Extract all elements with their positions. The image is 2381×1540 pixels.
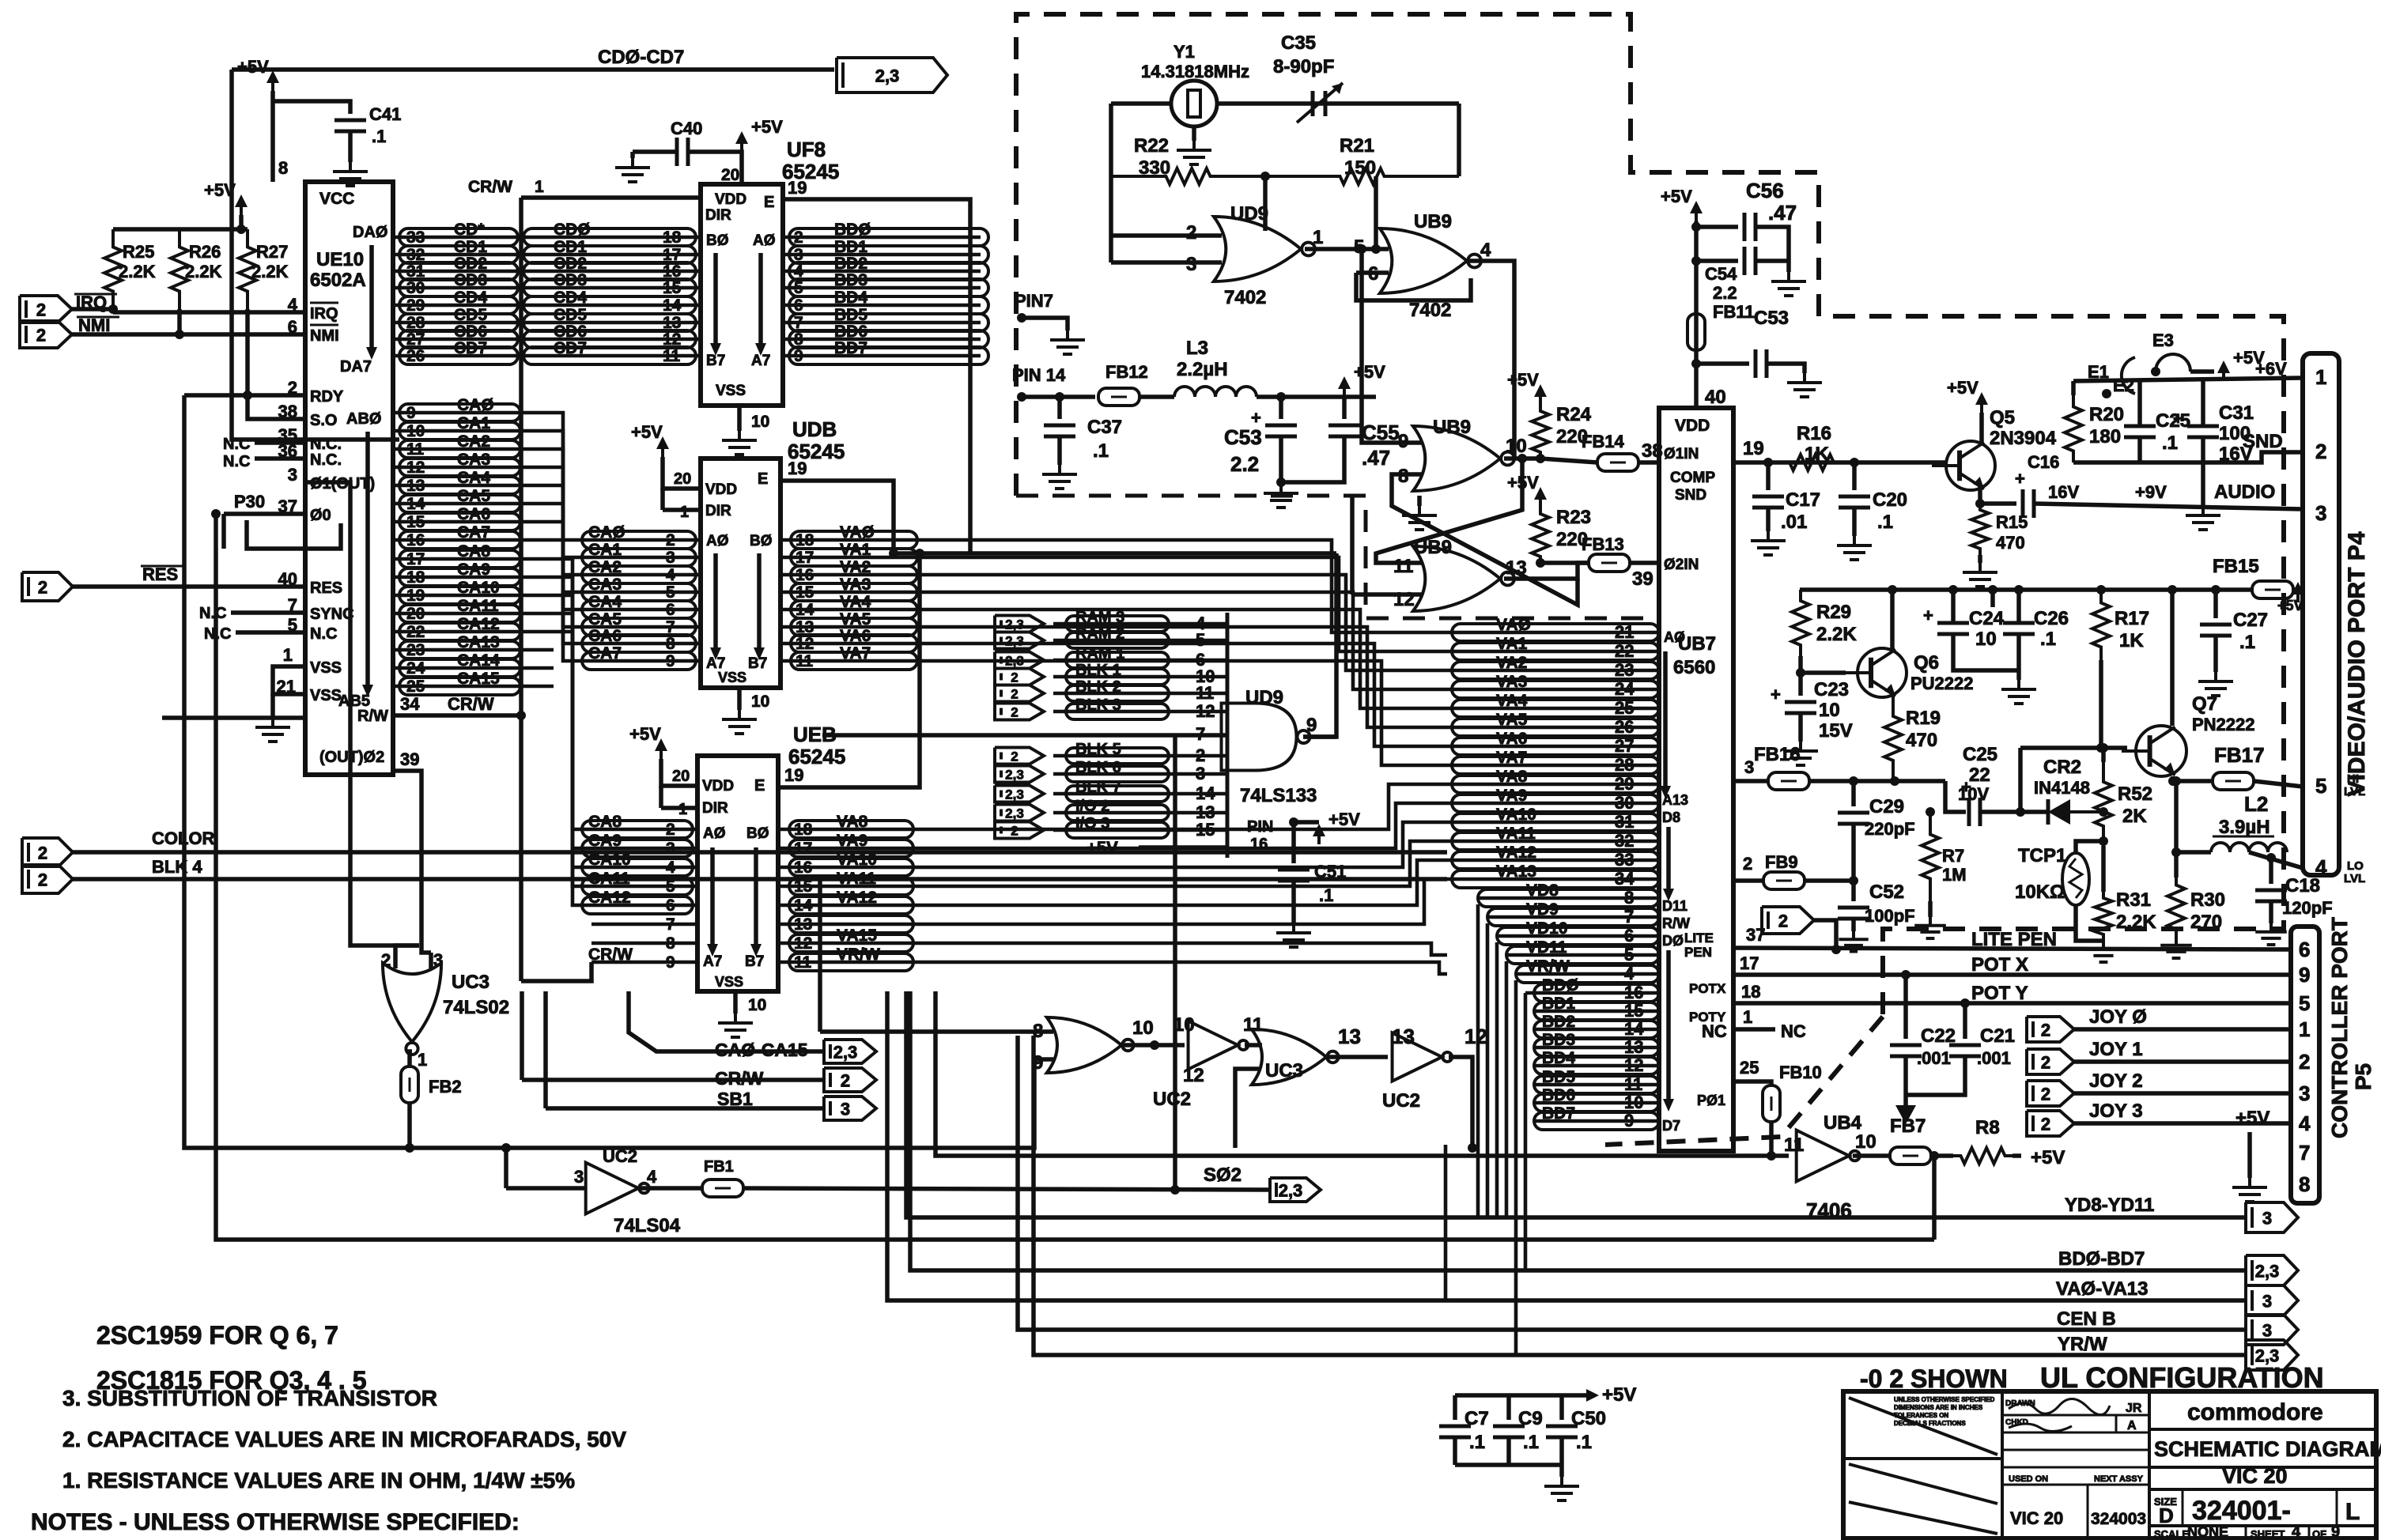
label CONTROLLER PORT <box>2327 917 2352 1138</box>
transistor Q6 PU2222 <box>1843 648 1907 697</box>
svg-text:CR/W: CR/W <box>715 1068 764 1089</box>
svg-text:VDD: VDD <box>1675 417 1710 435</box>
junction c20 <box>1850 458 1859 467</box>
label FB12 <box>1105 362 1148 382</box>
wire CD bus to arrow <box>232 67 834 72</box>
junction e3 <box>2151 367 2160 376</box>
wire uc3b in1 <box>820 1029 1053 1034</box>
label RAM 2 <box>1075 625 1124 643</box>
wire BD0 <box>783 236 981 240</box>
label CRW uf8 <box>468 178 512 196</box>
bus capsule VAe row 5 <box>789 915 913 933</box>
label next assy <box>2094 1474 2144 1484</box>
label C31 <box>2219 402 2254 424</box>
NOR gate UC3b <box>1047 1017 1134 1073</box>
wire BB1 riser <box>543 991 548 1108</box>
wire c54 gnd <box>1786 261 1791 272</box>
svg-text:4: 4 <box>666 566 675 584</box>
svg-text:10: 10 <box>1819 700 1840 721</box>
wire 7402b out clock <box>1469 261 1514 459</box>
label eCA11 <box>588 870 630 888</box>
wire osc right <box>1457 104 1461 176</box>
label RAM 3 <box>1075 609 1124 626</box>
svg-text:+5V: +5V <box>1507 370 1539 390</box>
label SCHEMATIC DIAGRAM <box>2154 1437 2381 1461</box>
label BLK 3 <box>1075 696 1121 714</box>
label chkd <box>2005 1418 2028 1427</box>
label CD5 <box>454 306 487 324</box>
svg-text:UL CONFIGURATION: UL CONFIGURATION <box>2040 1361 2324 1394</box>
ferrite bead FB13 <box>1589 554 1630 572</box>
label uCD5 <box>554 306 587 324</box>
label R20 <box>2089 404 2124 425</box>
label 65245 ueb <box>788 745 845 768</box>
svg-text:Q7: Q7 <box>2192 693 2217 715</box>
svg-text:10: 10 <box>1506 436 1527 457</box>
label bVD10 <box>1526 919 1568 938</box>
svg-text:10: 10 <box>1975 628 1997 650</box>
label UC2a <box>1153 1089 1191 1110</box>
pin 3 uc3a <box>433 950 443 970</box>
svg-text:7: 7 <box>666 915 675 934</box>
svg-text:14: 14 <box>1624 1019 1644 1039</box>
bus capsule CD row 5 <box>399 314 518 331</box>
wire NC5 <box>236 630 305 635</box>
pin 19 udb <box>788 459 807 478</box>
wire c25 up <box>2137 380 2142 425</box>
pin bd4 <box>794 262 803 281</box>
resistor R23 <box>1532 508 1549 563</box>
svg-text:BØ: BØ <box>706 232 729 249</box>
svg-text:330: 330 <box>1139 157 1170 179</box>
jumper E3 <box>2156 354 2190 372</box>
bus capsule VAu row 2 <box>791 566 917 583</box>
svg-text:CD5: CD5 <box>454 306 487 324</box>
svg-text:4: 4 <box>666 859 675 877</box>
pin bd7 <box>794 314 803 332</box>
pin a9 <box>406 404 416 422</box>
svg-text:Ø0: Ø0 <box>310 507 331 524</box>
svg-text:VSS: VSS <box>716 383 746 399</box>
label 2.2 <box>1713 283 1737 303</box>
pin ls133 4 <box>1196 613 1206 633</box>
bus capsule bVD row 0 <box>1478 889 1659 907</box>
wire C55 up <box>1342 397 1347 419</box>
svg-text:25: 25 <box>406 678 425 696</box>
wire E to UD9 out <box>1303 553 1336 737</box>
junction base tap <box>2016 807 2025 817</box>
label POTY <box>1689 1010 1726 1025</box>
wire BLK 1 <box>1053 675 1227 679</box>
arrowhead wire udb arrowR <box>754 647 765 660</box>
label CA6 <box>457 505 490 523</box>
label UDB <box>792 417 837 441</box>
svg-text:C29: C29 <box>1869 796 1904 817</box>
bus capsule bVA row 0 <box>1452 624 1659 641</box>
wire uc3a in1 <box>395 946 419 968</box>
pin 38 ub7 <box>1642 440 1663 462</box>
connector BLK 3 <box>995 704 1044 720</box>
label HI <box>2347 772 2359 786</box>
label D11 <box>1662 898 1687 914</box>
wire FB1 long <box>743 1188 1270 1190</box>
label 8-90pF <box>1273 56 1334 77</box>
pin ueb 3 <box>666 840 675 858</box>
wire VAe fan 3 <box>913 841 1447 886</box>
wire VD8 riser <box>1476 904 1480 1217</box>
pin udb 6 <box>666 601 675 619</box>
wire C7 dn <box>1453 1437 1457 1465</box>
pin b32 <box>1615 831 1634 851</box>
pin a12 <box>406 459 425 477</box>
label 220 <box>1556 529 1588 550</box>
label O2IN <box>1664 557 1699 573</box>
net IRQ <box>76 293 107 312</box>
pin 3 7402a <box>1186 254 1196 275</box>
ground udb <box>722 710 757 734</box>
bus capsule VAe row 7 <box>789 953 913 971</box>
pin b23 <box>1615 660 1634 680</box>
svg-text:2,3: 2,3 <box>1005 787 1024 802</box>
wire VA15 fan <box>913 943 1447 955</box>
wire NC36 <box>255 456 305 461</box>
label bVA8 <box>1496 768 1528 786</box>
svg-text:VIDEO/AUDIO PORT P4: VIDEO/AUDIO PORT P4 <box>2344 531 2370 796</box>
label CA2 <box>457 432 490 451</box>
svg-text:1: 1 <box>1313 227 1323 248</box>
pin ueb 9 <box>666 953 675 972</box>
wire SYNC stub <box>231 610 305 615</box>
svg-text:74LS02: 74LS02 <box>443 997 509 1018</box>
pin d11 <box>1624 1074 1642 1094</box>
bus capsule VAu row 6 <box>791 635 917 652</box>
svg-text:CR/W: CR/W <box>588 946 633 964</box>
svg-text:+5V: +5V <box>1328 810 1360 829</box>
connector BLK 7 <box>995 786 1044 802</box>
wire UEB row 5 <box>591 923 697 927</box>
label VA4 <box>840 593 871 611</box>
svg-text:N.C: N.C <box>199 605 226 622</box>
svg-text:CA10: CA10 <box>588 851 631 869</box>
svg-text:E3: E3 <box>2152 330 2174 350</box>
svg-text:120pF: 120pF <box>2282 898 2333 918</box>
pin vae11 <box>794 953 812 972</box>
label BLK 5 <box>1075 741 1121 758</box>
pin a14 <box>406 495 425 513</box>
overline RES <box>141 565 185 568</box>
pin 9 uc3b <box>1033 1052 1043 1074</box>
wire CA7 <box>393 538 554 542</box>
svg-text:+5V: +5V <box>2277 598 2304 613</box>
wire c31 gnd stub <box>2201 462 2205 506</box>
svg-text:Ø2IN: Ø2IN <box>1664 557 1699 573</box>
svg-text:Y1: Y1 <box>1173 42 1195 62</box>
svg-text:CA2: CA2 <box>457 432 490 451</box>
pin 34 <box>400 694 420 714</box>
svg-text:C37: C37 <box>1087 417 1122 438</box>
label L <box>2345 1499 2360 1525</box>
wire y1 gnd <box>1192 126 1196 141</box>
wire ls04 in <box>506 1186 585 1191</box>
svg-text:13: 13 <box>1338 1025 1361 1048</box>
wire c23 top <box>1798 673 1803 696</box>
wire uc3b out <box>1123 1043 1185 1047</box>
label scale <box>2154 1528 2189 1540</box>
svg-text:.1: .1 <box>2239 632 2255 653</box>
label eCA10 <box>588 851 631 869</box>
pin 4 <box>288 295 298 315</box>
pin vae14 <box>794 896 813 915</box>
svg-text:2.2µH: 2.2µH <box>1177 359 1228 380</box>
svg-text:E: E <box>764 194 774 211</box>
wire c53b l <box>1696 361 1749 366</box>
svg-text:JOY 3: JOY 3 <box>2089 1100 2143 1122</box>
label 2.2K <box>2116 912 2156 933</box>
wire c7 rail top <box>1455 1393 1589 1398</box>
svg-text:UB9: UB9 <box>1433 417 1471 438</box>
arrowhead wire ub7 arrow <box>1660 786 1671 798</box>
label 65245 udb <box>788 440 845 463</box>
pin label N.C. <box>310 451 342 469</box>
junction fb10 <box>1767 1151 1776 1161</box>
wire CA2 <box>393 447 554 451</box>
svg-text:JOY Ø: JOY Ø <box>2089 1006 2147 1028</box>
bus capsule CD row 3 <box>399 279 518 296</box>
resistor R15 <box>1971 504 1989 555</box>
inductor L2 <box>2211 843 2287 852</box>
label B0 uf8 <box>706 232 729 249</box>
svg-text:SYNC: SYNC <box>310 606 354 623</box>
net RES <box>142 564 178 584</box>
wire c56 r <box>1756 227 1789 261</box>
label A7 udb <box>706 655 725 672</box>
connector litepen <box>1762 907 1814 934</box>
junction ls04 <box>501 1143 511 1153</box>
svg-text:FB17: FB17 <box>2214 743 2265 767</box>
bus capsule CA row 3 <box>399 459 520 476</box>
capacitor C56 <box>1744 213 1756 241</box>
svg-text:SND: SND <box>1675 487 1706 504</box>
svg-text:R26: R26 <box>189 242 221 262</box>
pin b26 <box>1615 717 1634 737</box>
svg-text:2,3: 2,3 <box>1005 633 1024 648</box>
wire uc3a out <box>410 1051 412 1067</box>
wire fb9 out <box>1805 878 1854 883</box>
wire E ueb <box>778 553 920 787</box>
label R24 <box>1556 404 1592 425</box>
ground C20 <box>1837 536 1872 560</box>
label bVAØ <box>1496 616 1531 634</box>
wire c52 up <box>1851 881 1856 901</box>
wire CRW from pin34 <box>393 713 521 718</box>
svg-text:17: 17 <box>794 840 812 858</box>
label BD2 <box>834 255 867 273</box>
ferrite bead FB2 <box>401 1066 418 1103</box>
svg-text:BD3: BD3 <box>1542 1031 1575 1049</box>
svg-text:10: 10 <box>751 693 769 711</box>
label C9 val <box>1523 1432 1539 1453</box>
pin ueb 2 <box>666 821 675 839</box>
label CA3 <box>457 451 490 469</box>
label I/O 2 <box>1075 798 1109 815</box>
pin label RDY <box>310 388 344 406</box>
wire VRW riser <box>1514 980 1518 1355</box>
label +9V <box>2135 482 2167 502</box>
svg-text:2: 2 <box>381 950 391 970</box>
svg-text:33: 33 <box>1615 850 1634 870</box>
wire ub7 arrow3 <box>1666 950 1671 1104</box>
svg-text:2SC1959 FOR Q 6, 7: 2SC1959 FOR Q 6, 7 <box>96 1321 338 1349</box>
label CA1 <box>457 414 490 432</box>
svg-text:3: 3 <box>2299 1081 2310 1105</box>
connector BLK 5 <box>995 748 1044 764</box>
label -02 SHOWN <box>1860 1364 2008 1393</box>
label VDD ub7 <box>1675 417 1710 435</box>
wire y1 right <box>1217 101 1459 106</box>
wire c21 dn <box>1906 1056 1965 1095</box>
pin udb 2 <box>666 531 675 549</box>
label R21 <box>1340 135 1374 157</box>
resistor R30 <box>2167 878 2185 937</box>
svg-text:UDB: UDB <box>792 417 837 441</box>
label uCD3 <box>554 271 587 289</box>
label .1 <box>2162 432 2178 454</box>
wire ueb vdd-dir <box>659 786 663 808</box>
ground C18 <box>2255 923 2287 945</box>
wire VAe5 <box>778 923 913 927</box>
wire BLK 3 <box>1053 710 1227 714</box>
svg-text:R17: R17 <box>2115 608 2149 629</box>
svg-text:+5V: +5V <box>1947 378 1978 398</box>
svg-text:BD1: BD1 <box>1542 995 1575 1013</box>
svg-text:17: 17 <box>1740 953 1759 973</box>
svg-text:CA8: CA8 <box>588 813 622 831</box>
wire CA13 <box>393 648 554 652</box>
svg-text:12: 12 <box>1183 1065 1204 1086</box>
ferrite bead FB9 <box>1763 872 1805 889</box>
svg-text:CD3: CD3 <box>454 271 487 289</box>
wire VA fan 3 <box>917 592 1447 689</box>
svg-text:2: 2 <box>36 325 46 345</box>
label D0 ub7 <box>1662 933 1684 949</box>
junction q6c rail <box>1888 585 1897 594</box>
pin ls133b 13 <box>1196 802 1215 822</box>
wire VA0 <box>780 538 917 542</box>
ground C27 <box>2198 672 2233 696</box>
label C23 <box>1814 679 1849 700</box>
svg-text:74LS133: 74LS133 <box>1240 785 1317 806</box>
label cBD5 <box>1542 1068 1575 1086</box>
junction RDY <box>243 391 252 400</box>
svg-text:BLK 7: BLK 7 <box>1075 779 1121 796</box>
svg-text:11: 11 <box>406 440 425 459</box>
wire ub7 bd0 <box>1525 991 1659 995</box>
svg-text:C41: C41 <box>369 104 401 124</box>
pin 13 uc3c <box>1338 1025 1361 1048</box>
pin 17 ub7r <box>1740 953 1759 973</box>
svg-text:N.C: N.C <box>223 453 250 470</box>
junction r17 base <box>2096 743 2106 753</box>
svg-text:9: 9 <box>1306 715 1317 736</box>
connector RAM 3 <box>995 616 1044 632</box>
svg-text:10: 10 <box>751 413 769 431</box>
power +5V R23 <box>1507 473 1547 508</box>
svg-text:PIN7: PIN7 <box>1015 291 1053 311</box>
bus capsule VAe row 6 <box>789 934 913 952</box>
wire r20 top <box>2071 381 2076 395</box>
pin 32 <box>406 246 425 264</box>
bus capsule CDu row 7 <box>523 347 696 364</box>
svg-text:7: 7 <box>2299 1141 2310 1164</box>
svg-text:CA11: CA11 <box>588 870 630 888</box>
pin ueb 8 <box>666 934 675 953</box>
svg-text:2,3: 2,3 <box>1279 1180 1303 1200</box>
label P01 <box>1697 1093 1725 1108</box>
bus capsule bVA row 5 <box>1452 719 1659 736</box>
net JOY 2 <box>2089 1070 2143 1092</box>
pin 20 ueb <box>672 768 690 785</box>
wire uc2a out <box>1245 1043 1262 1047</box>
pin p5 6 <box>2299 938 2310 961</box>
bus capsule CD row 6 <box>399 330 518 348</box>
pin p5 3 <box>2299 1081 2310 1105</box>
pin d14 <box>1624 1019 1644 1039</box>
wire q7 collector <box>2170 590 2175 726</box>
pin b22 <box>1615 641 1634 661</box>
power +5V Q5 <box>1947 378 1988 413</box>
wire c54 l <box>1696 259 1738 263</box>
wire VA4 <box>780 608 917 612</box>
pin 2 uc3a <box>381 950 391 970</box>
svg-text:1: 1 <box>2315 365 2326 389</box>
ground C23 <box>1783 742 1818 765</box>
svg-text:3: 3 <box>1744 757 1754 777</box>
label B7 ueb <box>745 953 764 970</box>
label 100 <box>2219 423 2251 444</box>
bus capsule BD row 2 <box>789 262 988 280</box>
capacitor C52 <box>1838 908 1869 919</box>
svg-text:34: 34 <box>1615 869 1635 889</box>
svg-text:2.2K: 2.2K <box>2116 912 2156 933</box>
svg-text:CD7: CD7 <box>554 339 587 357</box>
arrowhead wire ub7 arrow2 <box>1663 889 1674 901</box>
svg-text:3. SUBSTITUTION OF TRANSISTOR: 3. SUBSTITUTION OF TRANSISTOR <box>62 1386 437 1410</box>
svg-text:POT X: POT X <box>1971 954 2028 976</box>
svg-text:SØ2: SØ2 <box>1204 1164 1242 1186</box>
junction PIN7 <box>1017 313 1026 323</box>
label R16 <box>1797 423 1831 444</box>
wire CRW vertical <box>519 198 523 981</box>
title block fine print <box>1894 1396 1995 1427</box>
junction CRW <box>516 711 526 720</box>
svg-text:BD6: BD6 <box>1542 1086 1575 1104</box>
wire litepen <box>1733 948 2291 949</box>
wire poty <box>1733 1001 2291 1006</box>
label C26 <box>2034 608 2069 629</box>
svg-text:VA9: VA9 <box>837 832 867 850</box>
svg-text:.1: .1 <box>1319 885 1333 905</box>
svg-text:JOY 1: JOY 1 <box>2089 1039 2143 1060</box>
wire udb vdd-dir <box>660 489 665 510</box>
wire FB2 to line <box>407 1102 412 1148</box>
svg-text:10: 10 <box>1855 1131 1876 1153</box>
overline NMI net <box>77 316 119 319</box>
net JOY Ø <box>2089 1006 2147 1028</box>
bus capsule BLK 7 <box>1066 786 1169 802</box>
pin 9 ub9a <box>1398 431 1408 452</box>
jumper E2 <box>2122 357 2135 394</box>
label C51 <box>1314 862 1346 881</box>
